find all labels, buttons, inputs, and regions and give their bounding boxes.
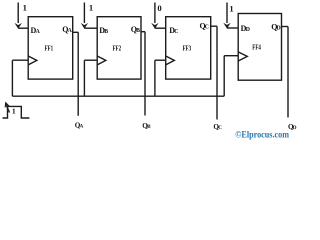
svg-text:C: C [218, 125, 222, 131]
wire clock FF2 [84, 59, 97, 61]
arrowhead clock pulse [5, 102, 10, 109]
svg-text:1: 1 [12, 107, 16, 116]
clock bus [12, 95, 224, 97]
clock riser FF1 [11, 60, 13, 96]
wire QA output stub [73, 31, 79, 33]
flip-flop FF3 box [166, 17, 211, 79]
svg-text:1: 1 [23, 3, 27, 13]
clock edge triangle FF1 [28, 56, 37, 65]
arrowhead FF4 data [223, 23, 230, 29]
wire QA tap down [77, 32, 79, 116]
data input arrow FF3 [154, 3, 156, 24]
clock edge triangle FF3 [166, 56, 175, 65]
clock edge triangle FF2 [97, 56, 106, 65]
svg-text:1: 1 [229, 4, 233, 14]
svg-text:FF1: FF1 [45, 45, 54, 53]
wire QC output stub [211, 25, 217, 27]
svg-text:B: B [147, 124, 151, 130]
wire D input FF2 [84, 27, 97, 29]
data input arrow FF1 [17, 3, 19, 24]
wire clock FF3 [155, 59, 166, 61]
arrowhead FF2 data [81, 23, 88, 29]
svg-text:C: C [174, 29, 178, 35]
flip-flop FF2 box [97, 17, 141, 79]
svg-text:B: B [136, 28, 140, 34]
wire clock FF1 [12, 59, 28, 61]
svg-text:FF2: FF2 [113, 45, 122, 53]
clock edge triangle FF4 [238, 52, 247, 61]
clock riser FF2 [83, 60, 85, 96]
wire D input FF3 [155, 27, 166, 29]
svg-text:©Elprocus.com: ©Elprocus.com [235, 130, 289, 140]
svg-text:C: C [205, 25, 209, 31]
flip-flop FF1 box [28, 17, 72, 79]
svg-text:B: B [104, 29, 108, 35]
wire clock FF4 [224, 55, 238, 57]
flip-flop FF4 box [238, 14, 281, 81]
clock pulse arrow [6, 104, 10, 113]
data input arrow FF2 [83, 3, 85, 24]
data input arrow FF4 [226, 3, 228, 24]
wire QB tap down [144, 32, 146, 116]
arrowhead FF3 data [151, 23, 158, 29]
svg-text:D: D [293, 125, 297, 131]
svg-text:0: 0 [157, 3, 161, 13]
clock riser FF3 [154, 60, 156, 96]
wire QD tap down [287, 27, 289, 118]
svg-text:A: A [68, 28, 73, 34]
wire QD output stub [282, 26, 289, 28]
clock riser FF4 [223, 56, 225, 96]
svg-text:1: 1 [89, 3, 93, 13]
svg-text:A: A [36, 29, 41, 35]
wire QB output stub [141, 31, 145, 33]
clock pulse waveform [3, 106, 30, 118]
svg-text:FF4: FF4 [252, 43, 261, 51]
arrowhead FF1 data [15, 23, 22, 29]
svg-text:A: A [80, 124, 84, 130]
wire QC tap down [216, 26, 218, 119]
svg-text:D: D [277, 26, 281, 32]
wire D input FF4 [227, 27, 238, 29]
svg-text:FF3: FF3 [183, 45, 192, 53]
svg-text:D: D [246, 27, 250, 33]
wire D input FF1 [18, 27, 28, 29]
